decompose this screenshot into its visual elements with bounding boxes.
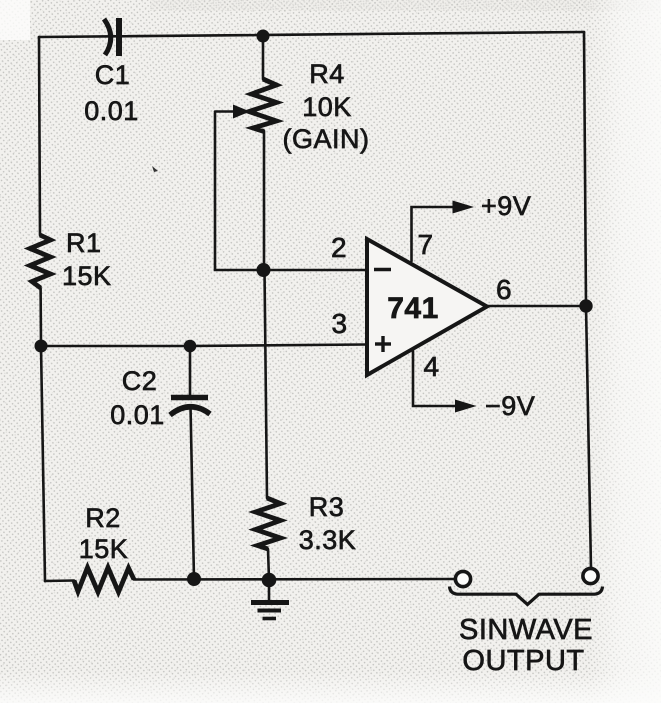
svg-text:15K: 15K [79,534,129,564]
terminal right [583,568,598,583]
wire R3 to ground node [268,549,269,580]
wire left upper [39,37,40,235]
wire pin7 to +9V [412,207,456,261]
wire bottom right of R2 [134,578,455,581]
svg-text:+9V: +9V [481,191,531,221]
svg-text:2: 2 [331,232,347,263]
svg-text:OUTPUT: OUTPUT [462,645,584,677]
resistor R1 [30,235,51,288]
wire R4 top stub [262,36,265,79]
svg-text:0.01: 0.01 [84,96,139,126]
node output [579,299,592,312]
svg-text:R2: R2 [85,503,121,533]
svg-text:R3: R3 [309,492,345,522]
wire left lower [41,288,45,581]
capacitor C2 [170,398,210,416]
wire output [487,305,586,308]
terminal left [455,571,470,586]
svg-text:SINWAVE: SINWAVE [459,614,593,646]
node C2 bottom [187,572,201,586]
node R4 bottom / pin2 [257,263,271,277]
svg-text:C2: C2 [122,366,158,396]
wire C2 top stub [189,346,192,396]
ink speck [152,166,158,172]
ground [251,580,289,619]
svg-text:R4: R4 [309,59,345,89]
svg-text:3.3K: 3.3K [299,525,357,555]
node top (C1/R4) [257,30,270,43]
svg-text:R1: R1 [66,228,102,258]
potentiometer R4 [233,79,277,132]
node left pin3 [35,340,48,353]
arrow +9V [453,201,475,214]
wire pin4 to -9V [413,351,459,406]
op-amp U1 741 [367,239,487,375]
svg-text:4: 4 [423,351,439,382]
svg-text:10K: 10K [302,92,352,122]
svg-text:6: 6 [496,274,512,305]
svg-text:0.01: 0.01 [110,400,165,430]
wire pin3 [41,345,366,347]
op-amp plus sign [375,336,391,352]
svg-text:(GAIN): (GAIN) [283,124,370,154]
svg-text:C1: C1 [95,60,131,90]
wire bottom left of R2 [45,579,74,582]
arrow -9V [455,400,477,413]
svg-text:15K: 15K [62,261,112,291]
wire R4 bottom to node [263,131,266,270]
wire top [39,32,584,37]
resistor R3 [256,498,281,549]
svg-text:741: 741 [387,292,439,325]
wire C2 bottom to bottom wire [191,406,195,579]
wire node to R3 [265,270,268,498]
wire wiper loop [215,113,263,270]
resistor R2 [74,568,134,593]
svg-text:3: 3 [331,308,347,339]
wire pin2 [263,269,366,272]
node C2 top [184,340,197,353]
svg-text:−9V: −9V [485,391,535,421]
wire right vertical [584,32,591,569]
svg-text:7: 7 [417,229,433,260]
capacitor C1 [104,18,119,56]
brace [450,587,603,605]
node R3 / ground [262,573,277,588]
op-amp minus sign [374,268,391,272]
wire wiper arrow line [215,110,236,113]
